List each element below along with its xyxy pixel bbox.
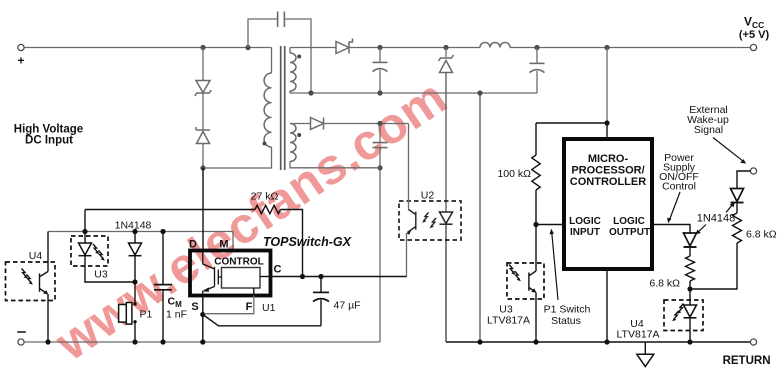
svg-text:RETURN: RETURN xyxy=(723,355,771,367)
svg-text:P1 Switch: P1 Switch xyxy=(544,304,591,316)
mosfet Q internal xyxy=(203,252,222,287)
diode D8 1N4148 xyxy=(129,243,142,255)
svg-text:U2: U2 xyxy=(421,190,435,202)
ground symbol xyxy=(644,342,646,354)
node secondary return Y-cap xyxy=(308,90,313,95)
node U3 LED on M rail xyxy=(82,229,87,234)
wire zener branch xyxy=(445,48,447,58)
bolts U4 receive xyxy=(22,269,28,279)
svg-text:LTV817A: LTV817A xyxy=(487,315,530,327)
diode U3 LED xyxy=(79,243,92,255)
bolts U4 LED xyxy=(677,304,683,314)
svg-text:Status: Status xyxy=(551,315,581,327)
node U3 branch bottom xyxy=(533,339,538,344)
svg-text:D: D xyxy=(189,239,197,251)
svg-text:MICRO-: MICRO- xyxy=(588,153,629,165)
zener VR2 xyxy=(439,55,454,61)
wire Vcc drop to micro xyxy=(606,48,608,124)
transformer phase dot secondary xyxy=(297,55,301,59)
arrow P1 status xyxy=(552,233,558,300)
wire U3 LED down and to switch column xyxy=(85,256,135,282)
terminal minus xyxy=(18,339,24,345)
svg-text:Control: Control xyxy=(662,181,696,193)
switch P1 xyxy=(133,302,136,305)
op U4 box left xyxy=(6,262,56,301)
wire 1N4148 to P1 xyxy=(134,256,136,304)
wire output rail to inductor xyxy=(349,47,480,49)
capacitor C2 output xyxy=(379,48,381,62)
ic micro box xyxy=(564,139,652,269)
wire clamp branch xyxy=(202,48,204,81)
bolts U3 LED xyxy=(93,244,99,254)
svg-text:27 kΩ: 27 kΩ xyxy=(251,191,279,203)
wire U3 LED branch xyxy=(84,210,86,244)
capacitor C6 bias xyxy=(379,124,381,143)
svg-text:OUTPUT: OUTPUT xyxy=(609,227,650,238)
svg-text:S: S xyxy=(191,301,198,313)
wire micro ground lead xyxy=(606,269,608,342)
svg-text:DC Input: DC Input xyxy=(25,135,73,147)
node 47uF xyxy=(318,274,323,279)
wire wake-up xyxy=(737,171,750,189)
diode D7 1N4148 xyxy=(731,189,744,202)
svg-text:6.8 kΩ: 6.8 kΩ xyxy=(649,278,680,290)
terminal external wake-up xyxy=(750,168,756,174)
svg-text:C: C xyxy=(274,264,282,276)
node diode chains join xyxy=(687,286,692,291)
wire return drop to RETURN rail xyxy=(479,93,481,342)
wire F to S tie xyxy=(204,296,254,314)
wire zener to diode xyxy=(202,93,204,130)
transformer phase dot bias xyxy=(297,133,301,137)
resistor R3 6.8k xyxy=(733,213,742,243)
svg-text:PROCESSOR/: PROCESSOR/ xyxy=(571,165,644,177)
wire RETURN rail xyxy=(446,341,750,343)
wire bias winding bottom xyxy=(290,162,380,168)
transformer bias winding xyxy=(290,124,296,162)
control block rectangle xyxy=(222,268,261,289)
wire rail to Vcc xyxy=(510,47,750,49)
capacitor C1 Y-cap xyxy=(278,12,285,28)
wire Y-cap right down to secondary return xyxy=(285,19,311,93)
svg-text:M: M xyxy=(219,239,228,251)
wire zener to U2 LED xyxy=(445,73,447,213)
capacitor C3 post filter xyxy=(536,48,538,63)
wire logic input xyxy=(536,224,564,226)
arrow to D5 xyxy=(698,225,706,232)
wire C pin net xyxy=(270,276,406,278)
diode D5 1N4148 xyxy=(684,233,697,246)
node S pin xyxy=(200,312,205,317)
node P1 bottom xyxy=(132,339,137,344)
arrow on/off control xyxy=(670,192,680,219)
wire to U4 LED xyxy=(689,289,691,305)
svg-text:U4: U4 xyxy=(29,250,43,262)
transformer T1 primary winding xyxy=(271,48,273,74)
node zener branch xyxy=(443,45,448,50)
op U4 LED box xyxy=(664,300,703,331)
wire 27k right to C net xyxy=(281,210,303,277)
wire 27k net left xyxy=(85,209,255,211)
transistor U2 photo xyxy=(408,124,410,210)
wire Vcc node to 100k xyxy=(536,123,607,139)
wire logic output xyxy=(652,225,690,234)
svg-text:LOGIC: LOGIC xyxy=(569,216,601,227)
svg-text:U3: U3 xyxy=(94,269,108,281)
terminal Vcc xyxy=(750,44,756,50)
node post filter cap xyxy=(534,45,539,50)
node Vcc feed micro xyxy=(604,45,609,50)
transformer secondary winding xyxy=(289,48,291,54)
wire secondary out to rectifier xyxy=(290,47,336,49)
wire U2 LED to RETURN rail xyxy=(445,224,447,342)
svg-text:(+5 V): (+5 V) xyxy=(739,29,770,41)
node micro ground xyxy=(604,339,609,344)
svg-text:LTV817A: LTV817A xyxy=(617,329,660,341)
node U4 emitter xyxy=(45,339,50,344)
wire M rail gray xyxy=(48,232,233,251)
svg-text:1 nF: 1 nF xyxy=(166,309,187,321)
node U4 LED bottom xyxy=(687,339,692,344)
arrow to D7 xyxy=(726,205,732,213)
svg-text:Signal: Signal xyxy=(694,124,723,136)
wire control to C pin xyxy=(260,276,270,278)
wire P1 to bottom rail xyxy=(134,322,136,342)
transformer phase dot primary xyxy=(263,142,267,146)
capacitor C4 47uF xyxy=(320,277,322,292)
diode U4 LED xyxy=(684,305,697,317)
wire M rail to 1N4148 xyxy=(134,232,136,244)
bolts U2 light xyxy=(422,213,428,223)
node CM bottom xyxy=(160,339,165,344)
node U3 LED join xyxy=(132,279,137,284)
diode D1 blocking xyxy=(196,127,210,130)
svg-text:100 kΩ: 100 kΩ xyxy=(497,168,531,180)
svg-text:CONTROL: CONTROL xyxy=(214,257,263,268)
node CM top xyxy=(160,229,165,234)
svg-text:CONTROLLER: CONTROLLER xyxy=(570,176,646,188)
node return cap xyxy=(377,90,382,95)
wire R3 to join node xyxy=(690,243,737,289)
resistor R4 27k xyxy=(255,205,280,213)
node 27k to C xyxy=(300,274,305,279)
svg-text:INPUT: INPUT xyxy=(570,227,600,238)
diode U2 LED xyxy=(440,212,453,224)
transistor U4 photo xyxy=(47,232,49,272)
resistor R1 100k xyxy=(535,123,537,155)
node Vcc micro junction xyxy=(604,120,609,125)
transformer core xyxy=(281,46,285,170)
svg-text:6.8 kΩ: 6.8 kΩ xyxy=(746,229,777,241)
resistor R2 6.8k xyxy=(686,256,695,281)
svg-text:1N4148: 1N4148 xyxy=(697,213,736,225)
inductor L1 xyxy=(480,43,510,48)
wire primary bottom rail xyxy=(24,341,380,343)
op U3 box right xyxy=(507,263,544,299)
node logic input xyxy=(533,222,538,227)
svg-text:1N4148: 1N4148 xyxy=(115,220,152,232)
wire bias top xyxy=(290,123,311,125)
diode D2 output rectifier xyxy=(336,42,349,54)
diode D9 bias rectifier xyxy=(311,118,324,130)
wire U2 emitter to C pin wire xyxy=(406,233,408,277)
node S bottom xyxy=(200,339,205,344)
svg-text:TOPSwitch-GX: TOPSwitch-GX xyxy=(263,235,352,249)
wire S pin stub xyxy=(202,296,204,343)
terminal plus DC input xyxy=(18,44,24,50)
svg-text:LOGIC: LOGIC xyxy=(613,216,645,227)
wire control to F pin xyxy=(253,288,255,296)
transistor U3 photo xyxy=(535,225,537,272)
svg-text:P1: P1 xyxy=(140,309,153,321)
wire bias rail to U2 collector xyxy=(324,123,409,125)
wire 47uF bottom to S xyxy=(203,315,321,326)
node 1N4148 top xyxy=(132,229,137,234)
wire top primary rail xyxy=(24,47,271,49)
node bias cap xyxy=(377,121,382,126)
wire drain riser xyxy=(202,168,204,251)
node return drop bottom xyxy=(477,339,482,344)
node return drop xyxy=(477,90,482,95)
terminal RETURN xyxy=(750,339,756,345)
svg-text:47 µF: 47 µF xyxy=(334,300,361,312)
svg-text:F: F xyxy=(246,301,253,313)
wire snubber up and over xyxy=(248,19,277,48)
node bias return xyxy=(377,165,382,170)
arrow wake-up xyxy=(713,138,743,161)
svg-text:U1: U1 xyxy=(262,302,276,314)
capacitor CM xyxy=(162,232,164,285)
wire diode to primary bottom node xyxy=(202,144,204,169)
ic U1 TOPSwitch-GX box xyxy=(190,251,271,296)
node snubber branch xyxy=(245,45,250,50)
node output cap xyxy=(377,45,382,50)
op U2 optocoupler box xyxy=(399,201,461,240)
svg-text:+: + xyxy=(17,54,24,68)
op U3 LED box xyxy=(71,236,108,266)
node clamp branch xyxy=(200,45,205,50)
wire secondary return rail xyxy=(290,92,537,94)
bolts U3 receive xyxy=(509,265,515,275)
node primary bottom / clamp / drain xyxy=(200,165,205,170)
zener VR1 clamp xyxy=(196,81,210,93)
